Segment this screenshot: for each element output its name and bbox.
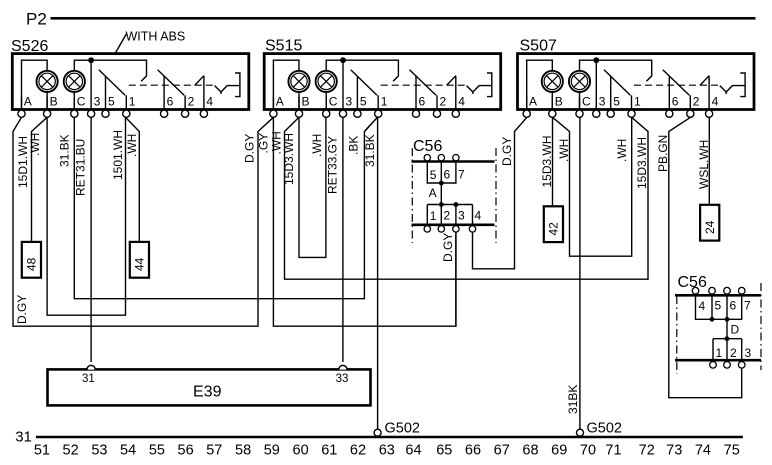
svg-text:31BK: 31BK <box>566 385 580 414</box>
svg-text:P2: P2 <box>26 10 47 29</box>
svg-text:7: 7 <box>458 168 465 182</box>
wire D.GY C56:4 to S507-A <box>473 117 527 268</box>
component E39 <box>48 369 371 405</box>
wire .BK from S515-1 diag <box>364 117 377 131</box>
link D <box>726 319 728 338</box>
svg-text:52: 52 <box>63 442 79 458</box>
svg-text:31: 31 <box>82 373 95 385</box>
terminal box 42 <box>544 206 563 242</box>
upper cells <box>696 295 742 319</box>
svg-text:RET33.GY: RET33.GY <box>326 136 340 194</box>
svg-text:48: 48 <box>25 257 39 271</box>
svg-text:4: 4 <box>475 209 482 223</box>
rotated wire labels <box>15 130 711 414</box>
svg-text:68: 68 <box>522 442 538 458</box>
svg-text:RET31.BU: RET31.BU <box>73 139 87 196</box>
svg-text:WITH ABS: WITH ABS <box>126 30 186 44</box>
svg-text:S507: S507 <box>520 38 557 55</box>
svg-text:A: A <box>429 186 437 200</box>
wire WSL.WH S507-4 to 24 <box>708 117 710 205</box>
wire 15D1.WH / D.GY from S526-A <box>13 117 273 326</box>
svg-text:72: 72 <box>639 442 655 458</box>
svg-text:15D3.WH: 15D3.WH <box>282 133 296 185</box>
svg-text:15D3.WH: 15D3.WH <box>540 135 554 187</box>
svg-text:44: 44 <box>133 257 147 271</box>
svg-text:33: 33 <box>336 373 349 385</box>
svg-text:D: D <box>731 323 740 337</box>
svg-text:69: 69 <box>551 442 567 458</box>
E39 terminal 33 <box>339 365 347 369</box>
svg-text:67: 67 <box>494 442 510 458</box>
svg-text:D.GY: D.GY <box>500 137 514 166</box>
svg-text:63: 63 <box>379 442 395 458</box>
wire 31.BK from S526-C to S515-1 <box>74 117 377 298</box>
top bus <box>412 160 495 163</box>
wire D.GY C56:3 west bus <box>455 232 457 326</box>
svg-text:G502: G502 <box>385 421 420 437</box>
svg-text:2: 2 <box>444 209 451 223</box>
top bus <box>675 294 761 297</box>
svg-text:3: 3 <box>745 346 752 360</box>
wire P2 bus line <box>51 17 756 20</box>
svg-text:62: 62 <box>350 442 366 458</box>
svg-text:15D3.WH: 15D3.WH <box>635 137 649 189</box>
svg-text:57: 57 <box>206 442 222 458</box>
svg-text:74: 74 <box>695 442 711 458</box>
dash-dot boundary right <box>495 148 497 243</box>
svg-text:1: 1 <box>430 209 437 223</box>
connector C56 mid <box>412 138 497 243</box>
svg-text:D.GY: D.GY <box>441 233 455 262</box>
svg-text:55: 55 <box>149 442 165 458</box>
wire 31.BK from S515-1 to G502 <box>377 117 379 429</box>
bottom bus <box>675 359 761 362</box>
svg-text:6: 6 <box>444 168 451 182</box>
coordinate scale numbers <box>34 442 740 458</box>
svg-text:73: 73 <box>666 442 682 458</box>
svg-text:31: 31 <box>15 428 32 445</box>
wire RET31.BU from S526-3 to E39:31 <box>90 117 92 362</box>
svg-text:.GY: .GY <box>257 133 271 154</box>
wire RET33.GY from S515-3 to E39:33 <box>342 117 344 362</box>
note WITH ABS leader line <box>115 34 127 54</box>
svg-text:71: 71 <box>605 442 621 458</box>
junction dot <box>439 181 444 186</box>
svg-text:.WH: .WH <box>28 133 42 156</box>
wire PB.GN S507-2 to C56:3 <box>669 117 742 397</box>
wire .WH from S526-1 to 44 <box>126 117 140 241</box>
svg-text:7: 7 <box>744 299 751 313</box>
svg-text:.WH: .WH <box>310 134 324 157</box>
connector C56 right <box>675 274 761 374</box>
svg-text:53: 53 <box>91 442 107 458</box>
dash-dot boundary left <box>676 296 678 374</box>
svg-text:60: 60 <box>293 442 309 458</box>
top terminals <box>692 287 745 294</box>
svg-text:WSL.WH: WSL.WH <box>697 140 711 189</box>
svg-text:59: 59 <box>264 442 280 458</box>
svg-text:3: 3 <box>458 209 465 223</box>
terminal box 24 <box>700 205 719 241</box>
svg-text:1501.WH: 1501.WH <box>111 130 125 180</box>
svg-text:70: 70 <box>580 442 596 458</box>
svg-text:PB.GN: PB.GN <box>656 135 670 172</box>
svg-text:.WH: .WH <box>125 134 139 157</box>
wire .WH from S515-A east bus <box>273 117 456 326</box>
svg-text:E39: E39 <box>193 384 222 401</box>
svg-text:24: 24 <box>703 220 717 234</box>
junction dots <box>710 317 715 322</box>
svg-text:31.BK: 31.BK <box>58 134 72 167</box>
upper cells <box>427 162 456 184</box>
svg-text:2: 2 <box>730 346 737 360</box>
svg-text:G502: G502 <box>587 421 622 437</box>
svg-text:.WH: .WH <box>557 139 571 162</box>
svg-text:54: 54 <box>120 442 136 458</box>
svg-text:5: 5 <box>430 168 437 182</box>
svg-text:.BK: .BK <box>347 136 361 155</box>
svg-text:65: 65 <box>436 442 452 458</box>
dash-dot boundary right <box>760 283 762 370</box>
bottom bus <box>412 224 495 227</box>
svg-text:5: 5 <box>715 299 722 313</box>
terminal box 44 <box>130 242 149 278</box>
svg-text:66: 66 <box>465 442 481 458</box>
wire .WH from S526-B to 48 <box>32 117 48 241</box>
svg-text:S515: S515 <box>265 38 302 55</box>
connector S507 <box>518 54 755 118</box>
svg-text:4: 4 <box>699 299 706 313</box>
svg-text:.WH: .WH <box>615 139 629 162</box>
svg-text:42: 42 <box>547 222 561 236</box>
svg-text:6: 6 <box>730 299 737 313</box>
wire 15D3.WH from S515-B to S507-1 <box>285 117 649 279</box>
svg-text:56: 56 <box>178 442 194 458</box>
connector S526 <box>12 54 249 118</box>
wire .WH S507-B diag link S507-1 <box>553 117 632 256</box>
svg-text:1: 1 <box>716 346 723 360</box>
svg-text:31.BK: 31.BK <box>363 134 377 167</box>
ground G502 left <box>374 429 381 436</box>
link A <box>440 183 442 205</box>
svg-text:51: 51 <box>34 442 50 458</box>
svg-text:58: 58 <box>235 442 251 458</box>
E39 terminal 31 <box>87 365 95 369</box>
bottom terminals <box>424 226 476 232</box>
wire S526-B straight link <box>47 117 125 315</box>
wire 31BK S507-C to G502 <box>579 117 581 429</box>
dash-dot boundary left <box>411 148 413 243</box>
svg-text:C56: C56 <box>413 138 442 155</box>
lower cells <box>713 339 742 361</box>
svg-text:D.GY: D.GY <box>15 295 29 324</box>
svg-text:C56: C56 <box>678 274 707 291</box>
svg-text:75: 75 <box>724 442 740 458</box>
connector S515 <box>264 54 501 118</box>
lower cells <box>427 205 472 225</box>
wire S515-B straight to S515-C link <box>299 117 326 257</box>
wire 15D3.WH S507-B to 42 <box>552 117 554 206</box>
svg-text:D.GY: D.GY <box>242 134 256 163</box>
ground G502 right <box>577 429 584 436</box>
svg-text:64: 64 <box>405 442 421 458</box>
svg-text:61: 61 <box>321 442 337 458</box>
top terminals <box>424 155 459 161</box>
terminal box 48 <box>22 242 41 278</box>
bottom terminals <box>710 362 745 369</box>
